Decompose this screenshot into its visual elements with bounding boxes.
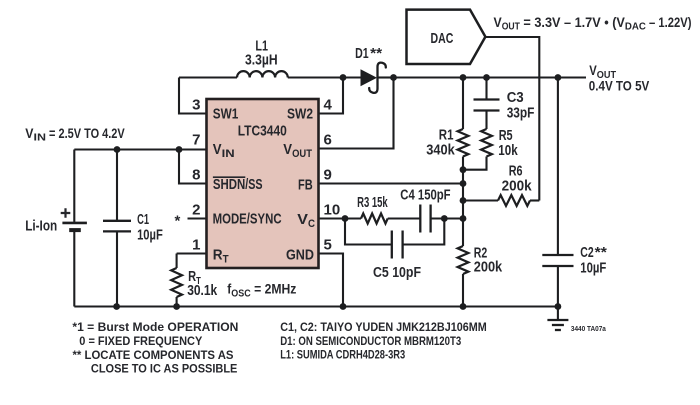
capacitor C5 <box>392 231 403 259</box>
svg-text:10: 10 <box>324 201 341 218</box>
svg-text:200k: 200k <box>474 260 503 276</box>
svg-text:D1: ON SEMICONDUCTOR MBRM120T3: D1: ON SEMICONDUCTOR MBRM120T3 <box>280 334 461 348</box>
svg-text:0 = FIXED FREQUENCY: 0 = FIXED FREQUENCY <box>79 334 202 348</box>
svg-text:3: 3 <box>192 96 200 113</box>
C2 value label <box>580 245 607 277</box>
capacitor C2 <box>542 255 573 266</box>
wire: ground rail <box>74 305 558 307</box>
junction: C2 top on VOUT rail <box>555 74 562 81</box>
wire: pin 5 GND stub and drop <box>319 254 344 307</box>
wire: C1 bottom lead <box>116 231 118 306</box>
wire: VIN rail <box>74 148 206 150</box>
svg-text:33pF: 33pF <box>507 106 535 122</box>
wire: FB pin 9 to FB node <box>319 182 464 184</box>
junction: C3 top on VOUT rail <box>483 74 490 81</box>
svg-text:C5 10pF: C5 10pF <box>373 265 421 281</box>
junction: VC node <box>342 215 349 222</box>
IC U1 LTC3440 body <box>207 99 319 268</box>
svg-text:fOSC = 2MHz: fOSC = 2MHz <box>227 282 296 300</box>
wire: R6 to DAC drop <box>530 199 539 201</box>
R1 value label <box>426 127 455 158</box>
C3 value label <box>507 90 535 122</box>
svg-text:FB: FB <box>298 177 313 193</box>
junction: GND pin ground <box>340 303 347 310</box>
wire: C3 top lead <box>485 78 487 100</box>
junction: C1 top <box>114 146 121 153</box>
svg-text:4: 4 <box>324 96 333 113</box>
svg-text:R5: R5 <box>499 128 513 144</box>
wire: battery bottom lead <box>73 231 75 306</box>
battery Li-Ion <box>61 208 87 230</box>
svg-text:10µF: 10µF <box>137 228 163 244</box>
wire: FB node to R6 <box>463 199 498 201</box>
wire: diode cathode lead <box>378 76 394 78</box>
wire: C2 top lead <box>557 78 559 256</box>
wire: R3 to C4 <box>388 217 421 219</box>
wire: VOUT rail <box>394 76 587 78</box>
resistor RT <box>171 268 182 297</box>
wire: R5 bottom jog to FB node <box>463 157 487 170</box>
junction: FB pin node <box>460 180 467 187</box>
wire: C5 branch right return <box>403 219 445 245</box>
wire: inductor to SW2 node <box>288 76 343 78</box>
junction: R5 bottom to FB column <box>460 166 467 173</box>
wire: DAC tip to drop line <box>485 37 539 201</box>
svg-text:10µF: 10µF <box>580 261 606 277</box>
svg-text:LTC3440: LTC3440 <box>238 124 287 140</box>
svg-text:DAC: DAC <box>431 31 454 47</box>
wire: FB column top (VOUT to R1) <box>462 78 464 130</box>
svg-text:R3 15k: R3 15k <box>357 195 388 211</box>
resistor R5 <box>481 129 492 157</box>
R5 value label <box>498 128 518 159</box>
svg-text:C1, C2: TAIYO YUDEN JMK212BJ10: C1, C2: TAIYO YUDEN JMK212BJ106MM <box>280 320 487 334</box>
svg-text:0.4V TO 5V: 0.4V TO 5V <box>589 77 650 93</box>
wire: diode anode lead <box>343 76 361 78</box>
wire: C3 to R5 <box>485 111 487 130</box>
R2 value label <box>474 246 503 276</box>
wire: SHDN/SS branch to pin 8 <box>179 150 207 184</box>
L1 value label <box>245 38 278 68</box>
wire: FB column bottom (R2 to ground rail) <box>462 274 464 307</box>
svg-text:MODE/SYNC: MODE/SYNC <box>213 212 282 228</box>
pin SHDN/SS label with overline <box>213 177 263 193</box>
net label VOUT output <box>589 62 650 93</box>
RT value label <box>187 269 218 299</box>
DAC box <box>407 10 486 64</box>
resistor R6 <box>498 195 530 206</box>
wire: FB column middle (R1 to R2) <box>462 157 464 247</box>
svg-text:200k: 200k <box>502 179 533 195</box>
svg-text:9: 9 <box>324 166 332 183</box>
wire: pin 2 MODE/SYNC stub <box>188 217 207 219</box>
note: component sources <box>280 320 487 362</box>
svg-text:6: 6 <box>324 131 332 148</box>
wire: pin 3 stub and left riser <box>179 78 207 114</box>
svg-text:R1: R1 <box>439 127 454 143</box>
wire: battery top lead <box>73 150 75 222</box>
svg-text:VIN = 2.5V TO 4.2V: VIN = 2.5V TO 4.2V <box>25 126 124 144</box>
resistor R2 <box>458 246 469 274</box>
svg-text:R6: R6 <box>509 163 523 179</box>
junction: R6 node <box>460 197 467 204</box>
svg-text:3440 TA07a: 3440 TA07a <box>571 326 606 333</box>
wire: RT top lead <box>176 254 178 269</box>
junction: pin8 branch <box>176 146 183 153</box>
svg-text:5: 5 <box>324 236 332 253</box>
wire: top run to inductor <box>179 76 237 78</box>
svg-text:C3: C3 <box>507 90 524 106</box>
resistor R1 <box>458 129 469 157</box>
junction: R2 ground <box>460 303 467 310</box>
capacitor C3 <box>474 100 500 111</box>
svg-text:CLOSE TO IC AS POSSIBLE: CLOSE TO IC AS POSSIBLE <box>91 362 238 376</box>
C1 value label <box>137 212 163 244</box>
svg-text:L1: SUMIDA CDRH4D28-3R3: L1: SUMIDA CDRH4D28-3R3 <box>280 348 405 362</box>
junction: diode cathode VOUT <box>390 74 397 81</box>
note: burst mode annotations <box>72 320 238 376</box>
ground symbol <box>547 320 568 330</box>
svg-text:VOUT = 3.3V – 1.7V • (VDAC – 1: VOUT = 3.3V – 1.7V • (VDAC – 1.22V) <box>494 14 692 33</box>
junction: SW2 node <box>340 74 347 81</box>
diode D1 (Schottky) <box>361 63 386 93</box>
wire: VC pin 10 to comp node <box>319 217 362 219</box>
R6 value label <box>502 163 533 194</box>
svg-text:SW1: SW1 <box>213 107 239 123</box>
svg-text:Li-Ion: Li-Ion <box>25 218 57 234</box>
svg-text:C2**: C2** <box>580 245 607 261</box>
capacitor C1 <box>103 221 131 232</box>
svg-text:*: * <box>175 213 181 230</box>
svg-text:GND: GND <box>286 248 314 264</box>
junction: comp to FB column <box>460 215 467 222</box>
wire: ground stem <box>557 307 559 321</box>
wire: pin 1 RT stub <box>177 252 207 254</box>
svg-text:** LOCATE COMPONENTS AS: ** LOCATE COMPONENTS AS <box>73 348 234 362</box>
capacitor C4 <box>420 205 430 233</box>
svg-text:SW2: SW2 <box>287 107 313 123</box>
wire: pin 4 stub and riser <box>319 78 344 114</box>
svg-text:*1 = Burst Mode OPERATION: *1 = Burst Mode OPERATION <box>72 320 238 334</box>
svg-text:2: 2 <box>192 201 200 218</box>
wire: pin 6 stub and riser to VOUT <box>319 78 394 149</box>
wire: RT bottom lead <box>176 297 178 307</box>
svg-text:340k: 340k <box>426 143 455 159</box>
svg-text:8: 8 <box>192 166 200 183</box>
svg-text:7: 7 <box>192 131 200 148</box>
svg-text:30.1k: 30.1k <box>187 283 218 299</box>
svg-text:10k: 10k <box>498 143 518 159</box>
wire: C1 top lead <box>116 150 118 221</box>
resistor R3 <box>361 214 388 224</box>
junction: C4/C5 join <box>441 215 448 222</box>
svg-text:SHDN/SS: SHDN/SS <box>213 177 263 193</box>
junction: R1 top on VOUT rail <box>460 74 467 81</box>
svg-text:C4 150pF: C4 150pF <box>400 188 450 204</box>
svg-text:3.3µH: 3.3µH <box>245 53 278 69</box>
inductor L1 <box>237 71 288 77</box>
wire: C4 to FB column <box>431 217 463 219</box>
junction: C2 ground <box>555 303 562 310</box>
junction: C1 ground <box>113 303 120 310</box>
junction: RT ground <box>173 303 180 310</box>
wire: C2 bottom lead <box>557 266 559 307</box>
wire: C5 branch left drop <box>345 219 392 245</box>
svg-text:C1: C1 <box>137 212 149 228</box>
svg-text:D1**: D1** <box>355 46 382 62</box>
svg-text:1: 1 <box>192 236 200 253</box>
